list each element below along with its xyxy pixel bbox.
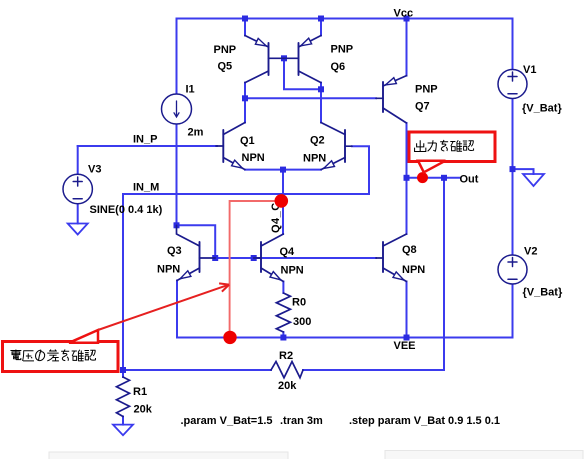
current source I1 xyxy=(162,94,192,124)
svg-text:Q1: Q1 xyxy=(240,135,255,147)
taskbar fragment right xyxy=(385,451,583,459)
wire V3 bottom lead xyxy=(77,204,79,224)
svg-text:R0: R0 xyxy=(292,297,306,309)
wire V1 top lead xyxy=(512,19,514,70)
svg-text:IN_P: IN_P xyxy=(133,134,157,146)
resistor R2 xyxy=(271,362,303,378)
junction Q5 Q6 base tie xyxy=(281,55,287,61)
wire I1 to Q3 diode tie xyxy=(177,225,216,258)
wire Q8 emitter to VEE xyxy=(406,282,408,338)
svg-text:NPN: NPN xyxy=(242,152,265,164)
wire Out node horizontal xyxy=(407,177,460,179)
voltage source V1 xyxy=(498,70,527,99)
svg-text:Q3: Q3 xyxy=(167,245,182,257)
ground below V3 xyxy=(68,224,88,235)
wire Q7 collector to Q8 collector xyxy=(406,123,408,234)
red dot Out xyxy=(417,172,428,183)
junction R0 VEE xyxy=(280,335,286,341)
resistor R0 xyxy=(276,293,290,332)
svg-text:Q7: Q7 xyxy=(415,101,430,113)
svg-text:PNP: PNP xyxy=(331,44,354,56)
voltage source V3 xyxy=(63,174,92,203)
junction Vcc-Q5 xyxy=(242,16,248,22)
junction Out node xyxy=(404,175,410,181)
svg-text:R1: R1 xyxy=(133,386,147,398)
junction R2 R1 IN_M xyxy=(120,367,126,373)
red probe path L shape xyxy=(230,201,281,337)
svg-text:Q6: Q6 xyxy=(331,61,346,73)
junction Q8 emitter VEE xyxy=(404,335,410,341)
transistor Q2 NPN mirrored xyxy=(321,123,352,170)
svg-text:PNP: PNP xyxy=(415,84,438,96)
junction Q3 base xyxy=(212,255,218,261)
annotation text voltage difference check xyxy=(10,349,95,360)
wire Q6 emitter riser xyxy=(320,19,322,36)
svg-text:V2: V2 xyxy=(524,246,537,258)
wire Q2 base riser xyxy=(352,146,369,194)
ground below R1 xyxy=(113,425,133,436)
annotation text output check xyxy=(415,140,474,152)
svg-text:Q8: Q8 xyxy=(402,244,417,256)
svg-text:V3: V3 xyxy=(88,164,101,176)
junction Q6 collector tie xyxy=(318,86,324,92)
transistor Q3 NPN mirrored xyxy=(177,225,216,280)
wire V3 top lead xyxy=(77,146,79,174)
wire Vcc rail xyxy=(177,18,513,20)
taskbar fragment left xyxy=(49,452,288,459)
svg-text:Q2: Q2 xyxy=(310,135,325,147)
wire R0 top lead xyxy=(282,282,284,294)
svg-text:NPN: NPN xyxy=(402,264,425,276)
junction emitter tail xyxy=(280,167,286,173)
svg-text:V1: V1 xyxy=(523,64,536,76)
svg-text:.step param V_Bat 0.9 1.5 0.1: .step param V_Bat 0.9 1.5 0.1 xyxy=(349,415,500,427)
transistor Q7 PNP xyxy=(376,76,407,123)
wire R2 right lead to Out riser xyxy=(303,369,444,371)
svg-text:{V_Bat}: {V_Bat} xyxy=(522,103,562,115)
transistor Q6 PNP xyxy=(284,36,321,83)
svg-text:.tran 3m: .tran 3m xyxy=(280,415,323,427)
junction Q4 base xyxy=(251,255,257,261)
transistor Q4 NPN xyxy=(254,234,284,282)
junction V1 ground xyxy=(510,166,516,172)
svg-text:PNP: PNP xyxy=(214,44,237,56)
svg-text:.param V_Bat=1.5: .param V_Bat=1.5 xyxy=(181,415,273,427)
svg-text:20k: 20k xyxy=(278,380,297,392)
wire V1 ground stub xyxy=(513,169,534,174)
wire tail node down to Q4 collector xyxy=(282,170,284,234)
svg-text:2m: 2m xyxy=(188,127,204,139)
wire Q1 Q2 emitter row xyxy=(245,169,321,171)
wire R1 top lead xyxy=(122,370,124,377)
svg-text:NPN: NPN xyxy=(157,264,180,276)
wire Q5 Q6 base tie to Q6 collector xyxy=(284,58,321,89)
svg-text:20k: 20k xyxy=(134,404,153,416)
red arrow to probe line xyxy=(98,283,229,330)
wire IN_P net from V3 to Q1 base xyxy=(78,145,217,147)
svg-text:SINE(0 0.4 1k): SINE(0 0.4 1k) xyxy=(90,204,163,216)
svg-text:Vcc: Vcc xyxy=(394,8,414,20)
junction I1 Q3 xyxy=(174,222,180,228)
svg-text:NPN: NPN xyxy=(281,265,304,277)
junction Out R2 riser xyxy=(441,175,447,181)
ground at V1 V2 midpoint xyxy=(523,174,544,186)
svg-text:NPN: NPN xyxy=(303,153,326,165)
voltage source V2 xyxy=(498,255,527,284)
svg-text:VEE: VEE xyxy=(394,340,416,352)
svg-text:Q5: Q5 xyxy=(218,61,233,73)
wire Out riser xyxy=(443,178,445,370)
junction Vcc-Q7 xyxy=(404,16,410,22)
svg-text:I1: I1 xyxy=(186,84,195,96)
transistor Q8 NPN xyxy=(376,234,407,282)
svg-text:300: 300 xyxy=(293,316,311,328)
wire IN_M net horizontal xyxy=(123,193,369,195)
svg-text:{V_Bat}: {V_Bat} xyxy=(523,287,563,299)
red dot node Q4_C xyxy=(275,194,289,208)
transistor Q1 NPN xyxy=(216,123,245,170)
wire Q3 emitter fall xyxy=(176,281,178,338)
wire R1 bottom lead xyxy=(122,417,124,425)
wire Q6 collector to Q2 collector xyxy=(320,83,322,123)
wire first stage output to Q7 base xyxy=(245,97,376,99)
svg-text:Out: Out xyxy=(460,174,479,186)
resistor R1 xyxy=(117,377,130,417)
wire V1 bottom to V2 top xyxy=(512,98,514,255)
wire R0 bottom lead xyxy=(282,332,284,338)
wire IN_M down to R1/R2 node xyxy=(122,194,124,370)
wire Q7 emitter riser xyxy=(406,19,408,76)
callout box voltage difference check xyxy=(3,330,119,372)
wire I1 bottom to Q3 collector node xyxy=(176,124,178,226)
wire V2 bottom to VEE rail xyxy=(177,284,513,338)
wire R2 left lead xyxy=(123,369,271,371)
callout box output check xyxy=(409,132,495,172)
wire Q5 collector to Q1 collector xyxy=(244,83,246,123)
wire I1 top lead xyxy=(176,19,178,95)
wire Q5 emitter riser xyxy=(244,19,246,36)
svg-text:R2: R2 xyxy=(279,350,293,362)
junction node A first stage out xyxy=(242,95,248,101)
red dot VEE-left xyxy=(223,331,236,344)
transistor Q5 PNP mirrored xyxy=(245,36,284,83)
svg-text:IN_M: IN_M xyxy=(133,182,159,194)
svg-text:Q4: Q4 xyxy=(280,246,296,258)
junction Vcc-Q6 xyxy=(318,16,324,22)
wire mirror base rail Q3 Q4 Q8 xyxy=(215,257,376,259)
